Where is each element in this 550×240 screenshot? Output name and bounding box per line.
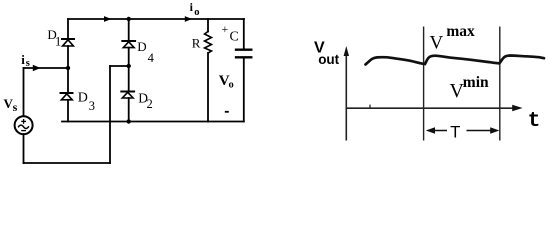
- svg-text:min: min: [463, 74, 489, 91]
- svg-text:t: t: [528, 110, 541, 133]
- svg-text:1: 1: [55, 34, 61, 48]
- svg-text:o: o: [229, 80, 234, 91]
- svg-text:2: 2: [147, 97, 153, 111]
- svg-text:3: 3: [89, 99, 95, 113]
- svg-text:4: 4: [148, 51, 155, 65]
- svg-text:o: o: [194, 7, 199, 18]
- svg-text:+: +: [222, 22, 229, 36]
- svg-text:s: s: [13, 100, 18, 114]
- svg-text:C: C: [230, 30, 239, 45]
- svg-text:max: max: [446, 23, 475, 40]
- svg-text:s: s: [26, 58, 30, 69]
- svg-text:i: i: [21, 52, 25, 67]
- svg-text:D: D: [78, 91, 88, 106]
- svg-text:V: V: [430, 33, 444, 54]
- svg-text:R: R: [192, 36, 201, 51]
- svg-text:out: out: [318, 52, 339, 67]
- svg-text:T: T: [450, 123, 460, 141]
- svg-text:D: D: [137, 39, 146, 54]
